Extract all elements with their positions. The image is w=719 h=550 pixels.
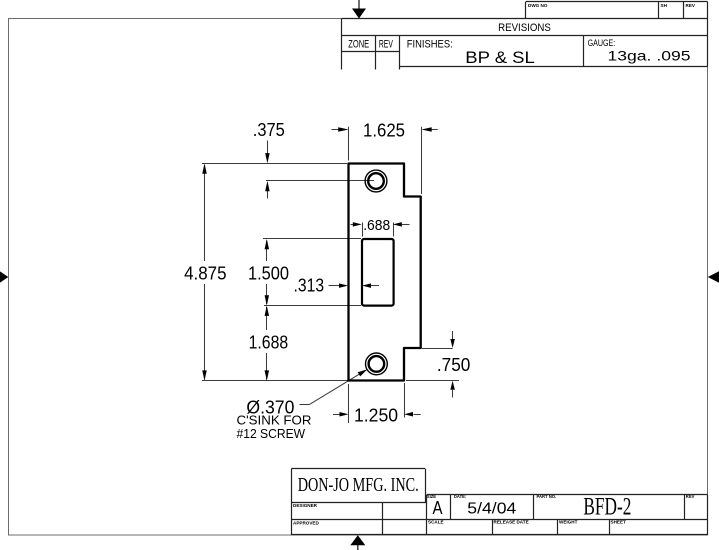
svg-text:APPROVED: APPROVED bbox=[293, 520, 319, 525]
svg-text:BP & SL: BP & SL bbox=[465, 48, 535, 67]
svg-text:.688: .688 bbox=[363, 217, 390, 234]
svg-text:1.500: 1.500 bbox=[248, 262, 289, 283]
svg-text:REVISIONS: REVISIONS bbox=[498, 22, 551, 34]
svg-text:GAUGE:: GAUGE: bbox=[588, 38, 616, 48]
svg-text:FINISHES:: FINISHES: bbox=[407, 38, 453, 50]
svg-text:SHEET: SHEET bbox=[611, 520, 627, 525]
svg-text:DWG NO: DWG NO bbox=[528, 3, 548, 8]
svg-text:REV: REV bbox=[686, 494, 695, 499]
svg-text:DATE:: DATE: bbox=[454, 494, 466, 499]
svg-text:SCALE: SCALE bbox=[428, 520, 444, 525]
svg-text:BFD-2: BFD-2 bbox=[583, 493, 631, 520]
svg-text:PART NO.: PART NO. bbox=[537, 494, 557, 499]
svg-text:WEIGHT: WEIGHT bbox=[559, 520, 578, 525]
svg-text:1.625: 1.625 bbox=[363, 119, 405, 140]
svg-text:ZONE: ZONE bbox=[348, 38, 369, 50]
svg-text:.313: .313 bbox=[294, 274, 325, 295]
svg-text:REV: REV bbox=[379, 38, 393, 50]
svg-text:SH: SH bbox=[661, 3, 668, 8]
svg-text:4.875: 4.875 bbox=[184, 262, 226, 283]
svg-text:#12 SCREW: #12 SCREW bbox=[237, 426, 306, 441]
svg-text:.750: .750 bbox=[437, 354, 471, 375]
svg-text:REV: REV bbox=[686, 3, 696, 8]
svg-text:DESIGNER: DESIGNER bbox=[293, 503, 318, 508]
svg-text:1.250: 1.250 bbox=[354, 405, 398, 426]
svg-text:A: A bbox=[433, 498, 443, 518]
svg-text:.375: .375 bbox=[253, 119, 285, 140]
svg-text:13ga. .095: 13ga. .095 bbox=[608, 49, 691, 65]
svg-text:5/4/04: 5/4/04 bbox=[467, 500, 516, 517]
svg-text:1.688: 1.688 bbox=[249, 332, 289, 353]
svg-text:RELEASE DATE: RELEASE DATE bbox=[494, 520, 529, 525]
svg-text:DON-JO MFG. INC.: DON-JO MFG. INC. bbox=[298, 474, 419, 496]
